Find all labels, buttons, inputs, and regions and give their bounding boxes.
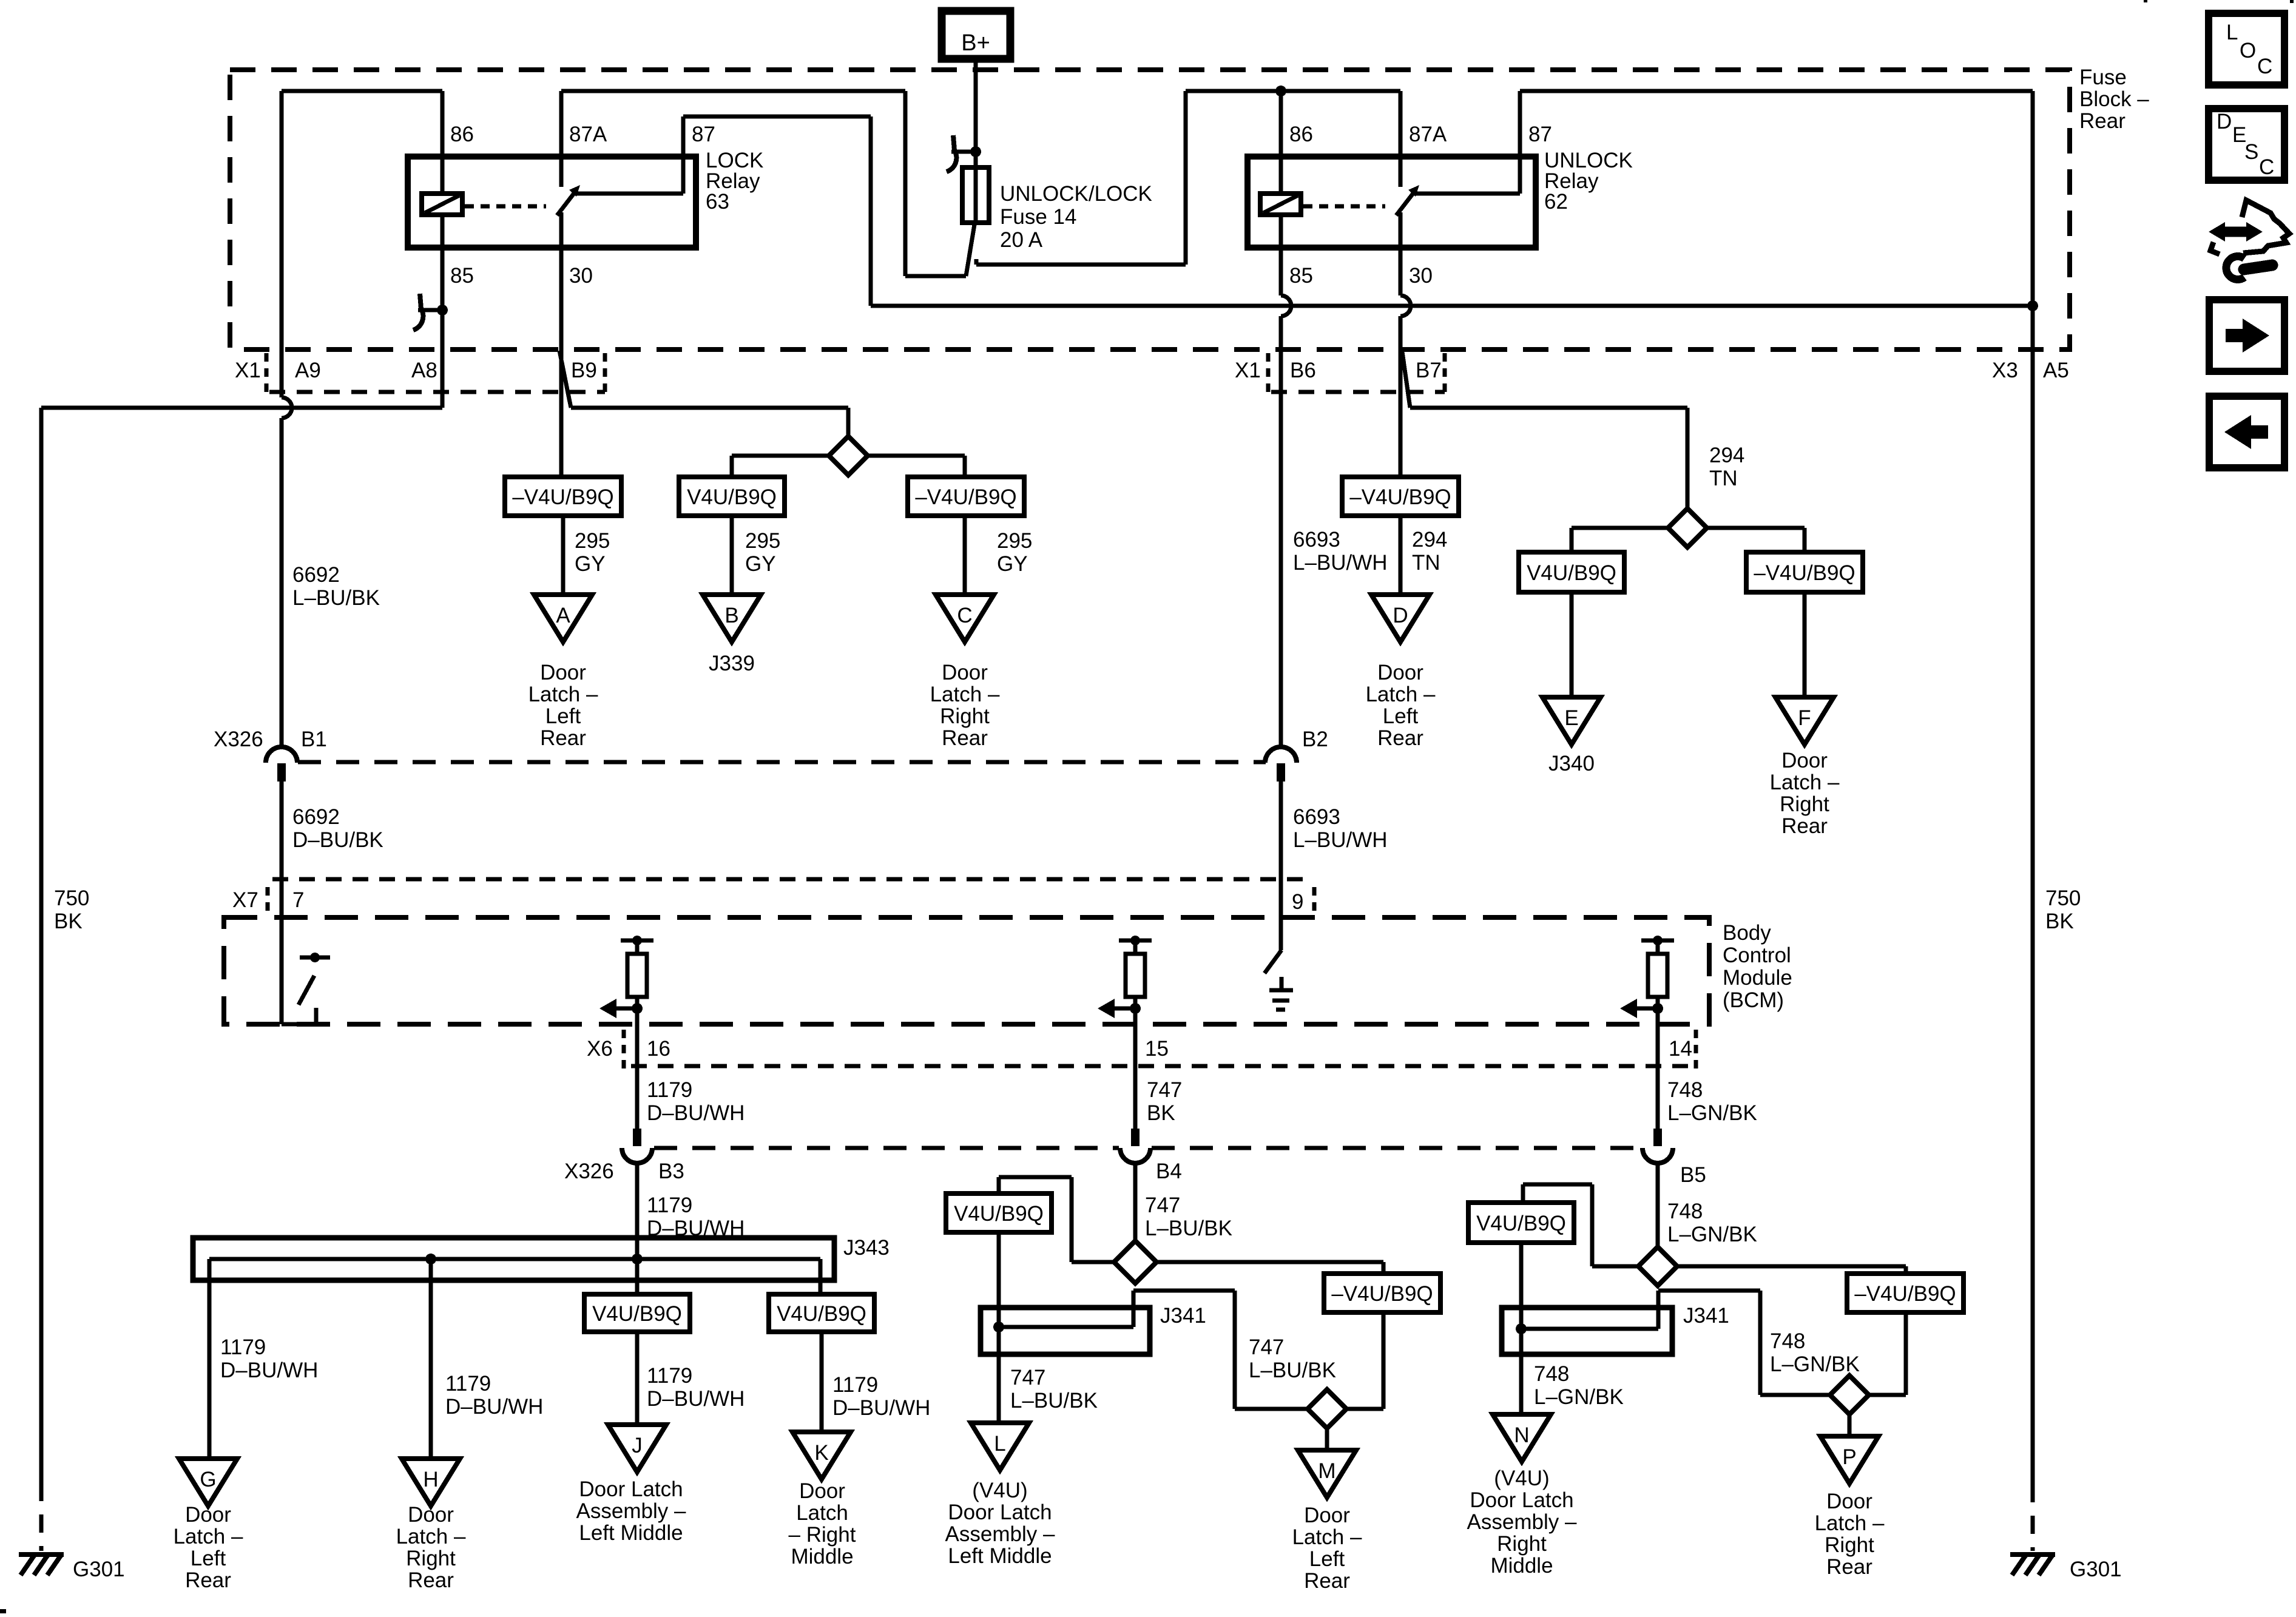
svg-text:K: K [814, 1441, 828, 1465]
label door latch left rear D [1366, 661, 1436, 750]
svg-text:6692: 6692 [292, 805, 340, 829]
svg-text:D–BU/WH: D–BU/WH [220, 1359, 318, 1382]
wire P diamond to triangle P [1848, 1414, 1852, 1436]
svg-text:B2: B2 [1302, 727, 1328, 751]
svg-text:S: S [2244, 140, 2258, 164]
wire J343 to K box [819, 1259, 823, 1294]
svg-text:–V4U/B9Q: –V4U/B9Q [1349, 485, 1451, 509]
svg-text:GY: GY [745, 552, 776, 576]
svg-text:B1: B1 [301, 727, 327, 751]
bus rail inside fuse block [871, 304, 2033, 308]
svg-text:G301: G301 [73, 1558, 125, 1581]
battery feed B+ terminal [942, 11, 1010, 59]
svg-text:D–BU/WH: D–BU/WH [832, 1396, 930, 1420]
label door latch right rear P [1815, 1490, 1885, 1579]
label 294 TN at EF feed [1709, 444, 1744, 490]
wire A9 to lock 86 [282, 89, 442, 93]
page artifact top right [2144, 0, 2294, 3]
svg-text:748: 748 [1534, 1362, 1569, 1386]
svg-text:– Right: – Right [789, 1523, 856, 1547]
svg-text:86: 86 [450, 123, 474, 146]
triangle connector G [179, 1459, 237, 1506]
wire L box through J341 to triangle L [997, 1232, 1001, 1423]
svg-text:V4U/B9Q: V4U/B9Q [954, 1202, 1044, 1226]
svg-text:Latch –: Latch – [1292, 1525, 1362, 1549]
connector X326 B2 [1265, 747, 1297, 781]
svg-text:Door: Door [540, 661, 586, 684]
svg-text:Fuse: Fuse [2079, 66, 2127, 89]
svg-text:Door Latch: Door Latch [579, 1477, 683, 1501]
svg-text:750: 750 [54, 886, 89, 910]
svg-text:L–GN/BK: L–GN/BK [1770, 1352, 1860, 1376]
svg-text:L–BU/BK: L–BU/BK [292, 586, 380, 610]
svg-text:L–BU/BK: L–BU/BK [1010, 1389, 1098, 1413]
svg-text:Latch –: Latch – [1815, 1511, 1885, 1535]
label 295 GY at A [575, 529, 610, 576]
label 750 BK right [2045, 886, 2081, 933]
svg-text:Assembly –: Assembly – [945, 1522, 1055, 1546]
svg-text:O: O [2240, 39, 2256, 62]
svg-text:85: 85 [450, 264, 474, 288]
svg-text:Left: Left [1383, 704, 1419, 728]
wire pin16 out [635, 1028, 640, 1129]
svg-text:J341: J341 [1160, 1304, 1206, 1328]
svg-text:L–GN/BK: L–GN/BK [1667, 1223, 1757, 1246]
svg-text:Assembly –: Assembly – [576, 1499, 686, 1523]
option box V4U/B9Q E [1519, 552, 1624, 592]
wire D box to triangle D [1399, 516, 1403, 595]
svg-text:747: 747 [1145, 1193, 1180, 1217]
svg-text:20 A: 20 A [1000, 228, 1043, 252]
svg-text:D–BU/WH: D–BU/WH [647, 1387, 745, 1411]
svg-text:87: 87 [1528, 123, 1552, 146]
connector X326 row2 dashed line [654, 1146, 1641, 1150]
svg-text:C: C [2259, 155, 2274, 179]
svg-text:X1: X1 [1235, 359, 1261, 382]
wire B box to triangle B [730, 516, 734, 595]
triangle connector A [534, 595, 592, 642]
BCM driver pin14 [1620, 936, 1674, 1028]
wire B3 down to J343 [635, 1163, 640, 1294]
splice diamond EF [1668, 508, 1707, 547]
lock relay switch arm [557, 185, 580, 215]
label 6692 L-BU/BK [292, 563, 380, 610]
unlock relay switch arm [1396, 185, 1419, 215]
fuse F14 UNLOCK/LOCK 20A [962, 167, 989, 223]
svg-text:A8: A8 [411, 359, 437, 382]
svg-text:1179: 1179 [647, 1193, 692, 1217]
svg-text:Rear: Rear [1377, 726, 1423, 750]
svg-text:G: G [200, 1468, 216, 1491]
wire B9 down to A box [559, 349, 564, 477]
svg-text:GY: GY [575, 552, 606, 576]
lock relay coil [422, 194, 462, 215]
triangle connector L [971, 1423, 1029, 1470]
triangle connector F [1775, 697, 1834, 744]
svg-text:X326: X326 [214, 727, 263, 751]
svg-text:L–GN/BK: L–GN/BK [1534, 1385, 1624, 1409]
svg-text:–V4U/B9Q: –V4U/B9Q [1854, 1282, 1956, 1306]
svg-text:B+: B+ [961, 30, 990, 56]
connector X1 left labels [235, 359, 597, 382]
label door latch left rear G [174, 1503, 243, 1592]
label door latch right middle K [789, 1479, 856, 1568]
label 747 L-BU/BK B4 [1145, 1193, 1232, 1240]
wire B9 branch to splice [559, 351, 848, 438]
svg-text:87A: 87A [569, 123, 607, 146]
wire diamond to M box [1156, 1262, 1383, 1274]
svg-text:Latch –: Latch – [528, 683, 598, 706]
BCM pin7 switch [282, 953, 330, 1024]
wire pin14 out [1656, 1028, 1660, 1129]
ground G301 left [19, 1555, 125, 1581]
svg-text:D–BU/WH: D–BU/WH [647, 1101, 745, 1125]
wire F box to triangle F [1803, 592, 1807, 697]
svg-text:(BCM): (BCM) [1723, 988, 1784, 1012]
svg-text:L–GN/BK: L–GN/BK [1667, 1101, 1757, 1125]
svg-text:G301: G301 [2070, 1558, 2122, 1581]
svg-text:C: C [957, 604, 972, 627]
label door latch assembly left middle J [576, 1477, 686, 1545]
wire A9-B1 6692 [280, 91, 284, 748]
option box V4U/B9Q L [946, 1193, 1052, 1232]
label 748 L-GN/BK B5 [1667, 1200, 1757, 1246]
label 295 GY at B [745, 529, 780, 576]
svg-text:V4U/B9Q: V4U/B9Q [777, 1302, 866, 1326]
triangle connector C [936, 595, 994, 642]
wire pin15 out [1133, 1028, 1138, 1129]
svg-text:Rear: Rear [540, 726, 586, 750]
svg-text:Left Middle: Left Middle [948, 1544, 1052, 1568]
body control module dashed box [224, 917, 1709, 1024]
svg-text:Fuse 14: Fuse 14 [1000, 205, 1076, 229]
svg-text:9: 9 [1292, 890, 1303, 914]
page artifact bottom left [0, 1609, 6, 1613]
svg-text:295: 295 [997, 529, 1032, 553]
svg-text:TN: TN [1412, 551, 1440, 575]
svg-text:TN: TN [1709, 467, 1738, 490]
svg-text:748: 748 [1667, 1200, 1703, 1223]
clamp symbol at B+ wire [947, 135, 981, 172]
svg-text:V4U/B9Q: V4U/B9Q [1527, 561, 1616, 585]
svg-text:UNLOCK/LOCK: UNLOCK/LOCK [1000, 182, 1152, 206]
icon adjust hand tool [2209, 200, 2289, 280]
svg-text:87: 87 [692, 123, 715, 146]
connector X7 row dotted line [272, 877, 1313, 882]
svg-text:Right: Right [406, 1547, 456, 1570]
svg-text:BK: BK [1147, 1101, 1175, 1125]
svg-text:63: 63 [706, 190, 729, 214]
svg-text:A9: A9 [295, 359, 321, 382]
label 1179 D-BU/WH J [647, 1364, 745, 1411]
label J339 [709, 652, 755, 675]
svg-text:Body: Body [1723, 921, 1771, 945]
svg-text:Door: Door [1781, 749, 1828, 772]
svg-text:747: 747 [1010, 1366, 1045, 1389]
wire splice to F box [1706, 528, 1805, 552]
lock relay 63 box [408, 157, 696, 248]
hop unlock30 over rail [1400, 295, 1411, 316]
wire fuse to lock relay 87A [561, 91, 974, 276]
triangle connector P [1820, 1436, 1879, 1484]
triangle connector M [1298, 1450, 1356, 1497]
svg-text:Rear: Rear [1826, 1555, 1872, 1579]
wire splice to C box [867, 456, 965, 477]
label body control module BCM [1723, 921, 1792, 1012]
svg-text:M: M [1318, 1459, 1335, 1483]
option box -V4U/B9Q C [908, 477, 1024, 516]
option box V4U/B9Q J [584, 1294, 690, 1332]
wire B6-B2 6693 [1279, 349, 1283, 748]
wire M diamond to triangle M [1325, 1428, 1329, 1450]
lock relay pin 85 wire [442, 215, 474, 349]
label X326 B1 [214, 727, 327, 751]
svg-text:Assembly –: Assembly – [1467, 1510, 1577, 1534]
label 747 L-BU/BK M [1249, 1335, 1336, 1382]
wire B7 to D box 294 [1399, 349, 1403, 477]
svg-text:B: B [724, 604, 738, 627]
label 1179 D-BU/WH pin16 [647, 1078, 745, 1125]
wire B2 to BCM pin9 6693 [1279, 781, 1283, 950]
svg-text:Rear: Rear [942, 726, 988, 750]
svg-text:Right: Right [940, 704, 990, 728]
splice diamond B5 [1638, 1247, 1677, 1286]
label 1179 D-BU/WH G [220, 1335, 318, 1382]
splice pack J343 outline [193, 1238, 834, 1280]
svg-text:Door: Door [408, 1503, 454, 1527]
svg-text:–V4U/B9Q: –V4U/B9Q [512, 485, 613, 509]
svg-text:Door: Door [1304, 1504, 1350, 1527]
svg-text:A5: A5 [2043, 359, 2069, 382]
svg-text:Door: Door [942, 661, 988, 684]
svg-text:L–BU/BK: L–BU/BK [1249, 1359, 1336, 1382]
svg-text:1179: 1179 [647, 1078, 692, 1102]
svg-text:–V4U/B9Q: –V4U/B9Q [1331, 1282, 1433, 1306]
ground G301 right [2010, 1555, 2122, 1581]
svg-text:X326: X326 [564, 1160, 614, 1183]
svg-text:Block –: Block – [2079, 87, 2149, 111]
svg-text:16: 16 [647, 1037, 670, 1061]
option box -V4U/B9Q M [1324, 1274, 1440, 1312]
label J341 left [1160, 1304, 1206, 1328]
svg-text:C: C [2257, 55, 2272, 78]
icon LOC box [2209, 13, 2284, 85]
label 6693 L-BU/WH lower [1293, 805, 1388, 852]
svg-text:X1: X1 [235, 359, 261, 382]
unlock relay pin 86 [1281, 91, 1313, 194]
label (V4U) door latch assembly left middle L [945, 1479, 1055, 1568]
svg-text:GY: GY [997, 552, 1028, 576]
svg-text:P: P [1842, 1445, 1856, 1469]
svg-text:Right: Right [1825, 1533, 1874, 1557]
svg-text:J: J [632, 1434, 643, 1457]
wire M box to M diamond [1346, 1312, 1383, 1409]
wire diamond to L box [999, 1177, 1114, 1262]
svg-text:Rear: Rear [1781, 814, 1828, 838]
label 1179 D-BU/WH B3 [647, 1193, 745, 1240]
splice diamond B4 [1114, 1241, 1156, 1283]
wire P box to P diamond [1869, 1312, 1906, 1395]
svg-text:Rear: Rear [1304, 1569, 1350, 1593]
option box -V4U/B9Q F [1746, 552, 1863, 592]
svg-text:Left Middle: Left Middle [579, 1521, 683, 1545]
svg-text:295: 295 [575, 529, 610, 553]
svg-text:6692: 6692 [292, 563, 340, 587]
svg-text:(V4U): (V4U) [972, 1479, 1027, 1502]
svg-text:Right: Right [1780, 792, 1829, 816]
svg-text:Rear: Rear [2079, 109, 2125, 133]
option box V4U/B9Q B [679, 477, 785, 516]
triangle connector N [1493, 1414, 1551, 1462]
svg-text:294: 294 [1412, 528, 1447, 552]
svg-text:748: 748 [1667, 1078, 1703, 1102]
J341 left internal bus [993, 1291, 1308, 1409]
svg-text:Door Latch: Door Latch [948, 1501, 1052, 1524]
unlock relay pin 85 wire [1281, 215, 1313, 349]
labels X7 7 9 [232, 888, 1303, 914]
svg-text:7: 7 [292, 888, 304, 912]
connector X1 right labels [1235, 359, 1442, 382]
wire splice to E box [1572, 528, 1669, 552]
svg-text:BK: BK [54, 910, 83, 933]
svg-text:Latch –: Latch – [1770, 771, 1840, 794]
wire N box through J341 to triangle N [1519, 1243, 1524, 1414]
label door latch left rear M [1292, 1504, 1362, 1593]
svg-text:Door: Door [1377, 661, 1423, 684]
junction dot J [632, 1254, 643, 1264]
svg-text:86: 86 [1289, 123, 1313, 146]
svg-text:87A: 87A [1409, 123, 1447, 146]
label 750 BK left [54, 886, 89, 933]
svg-text:X7: X7 [232, 888, 258, 912]
J343 internal bus [209, 1257, 820, 1261]
svg-text:B9: B9 [571, 359, 597, 382]
triangle connector D [1371, 595, 1430, 642]
svg-text:J343: J343 [843, 1236, 890, 1260]
lock relay pin 87A [561, 91, 607, 187]
svg-text:B6: B6 [1290, 359, 1316, 382]
fuse block rear dashed outline [230, 70, 2070, 349]
lock relay coil-switch dashed link [465, 204, 546, 209]
svg-text:X3: X3 [1992, 359, 2018, 382]
svg-text:(V4U): (V4U) [1494, 1467, 1549, 1490]
unlock relay 62 box [1248, 157, 1536, 248]
label 748 L-GN/BK pin14 [1667, 1078, 1757, 1125]
svg-text:62: 62 [1544, 190, 1568, 214]
svg-text:Middle: Middle [791, 1545, 853, 1568]
svg-text:L–BU/WH: L–BU/WH [1293, 828, 1388, 852]
fuse 14 label [1000, 182, 1152, 252]
svg-text:A: A [556, 604, 570, 627]
svg-text:Latch –: Latch – [174, 1525, 243, 1548]
svg-text:Door: Door [799, 1479, 845, 1503]
svg-text:295: 295 [745, 529, 780, 553]
icon DESC box [2209, 109, 2284, 180]
wire C box to triangle C [963, 516, 967, 595]
svg-text:1179: 1179 [220, 1335, 266, 1359]
svg-text:Module: Module [1723, 966, 1792, 990]
svg-text:Latch –: Latch – [396, 1525, 466, 1548]
svg-text:Right: Right [1497, 1532, 1547, 1556]
unlock relay coil-switch dashed link [1303, 204, 1385, 209]
svg-text:J340: J340 [1548, 752, 1595, 775]
connector X326 B4 [1120, 1129, 1150, 1163]
splice pack J341 right outline [1502, 1308, 1672, 1354]
option box V4U/B9Q K [769, 1294, 874, 1332]
svg-text:N: N [1514, 1423, 1529, 1447]
unlock relay coil [1260, 194, 1301, 215]
hop unlock85 over rail [1281, 295, 1291, 316]
label 1179 D-BU/WH H [445, 1372, 543, 1419]
option box -V4U/B9Q D [1342, 477, 1459, 516]
svg-text:E: E [1564, 706, 1578, 730]
label 1179 D-BU/WH K [832, 1373, 930, 1420]
unlock relay pin 30 wire [1400, 212, 1433, 349]
label 6692 D-BU/BK [292, 805, 383, 852]
label door latch right rear C [930, 661, 1000, 750]
svg-text:1179: 1179 [445, 1372, 491, 1396]
svg-text:30: 30 [569, 264, 593, 288]
svg-text:747: 747 [1249, 1335, 1284, 1359]
svg-text:BK: BK [2045, 910, 2074, 933]
wire B+ to fuse 14 [974, 59, 978, 167]
junction rail to X3-A5 [2027, 91, 2038, 311]
svg-text:L: L [2226, 21, 2238, 44]
label 747 BK pin15 [1147, 1078, 1182, 1125]
label door latch left rear A [528, 661, 598, 750]
option box -V4U/B9Q A [505, 477, 621, 516]
svg-text:–V4U/B9Q: –V4U/B9Q [1754, 561, 1855, 585]
svg-text:294: 294 [1709, 444, 1744, 467]
icon arrow back box [2209, 396, 2284, 468]
lock relay pin 30 wire [561, 212, 593, 349]
label J341 right [1683, 1304, 1729, 1328]
left ground rail 750 BK [39, 408, 44, 1551]
svg-text:6693: 6693 [1293, 805, 1340, 829]
label B2 [1302, 727, 1328, 751]
svg-text:B7: B7 [1416, 359, 1442, 382]
wire A box to triangle A [561, 516, 566, 595]
connector X6 ticks [624, 1030, 1696, 1070]
wire diamond to P box [1677, 1266, 1906, 1275]
connector X3 A5 labels [1992, 359, 2069, 382]
wire E box to triangle E [1570, 592, 1574, 697]
svg-text:Latch –: Latch – [1366, 683, 1436, 706]
label 295 GY at C [997, 529, 1032, 576]
svg-text:B5: B5 [1680, 1163, 1706, 1187]
lock relay pin 86 [442, 91, 474, 194]
svg-text:1179: 1179 [647, 1364, 692, 1388]
svg-text:J339: J339 [709, 652, 755, 675]
wire diamond to N box [1523, 1184, 1638, 1266]
labels X6 16 15 14 [587, 1037, 1692, 1061]
label 748 L-GN/BK P [1770, 1329, 1860, 1376]
triangle connector K [792, 1432, 851, 1479]
svg-text:747: 747 [1147, 1078, 1182, 1102]
svg-text:D–BU/BK: D–BU/BK [292, 828, 383, 852]
svg-text:D–BU/WH: D–BU/WH [445, 1395, 543, 1419]
wire J343 to triangle H [429, 1259, 433, 1459]
svg-text:L–BU/WH: L–BU/WH [1293, 551, 1388, 575]
label 6693 L-BU/WH upper [1293, 528, 1388, 575]
svg-text:Left: Left [545, 704, 581, 728]
svg-text:6693: 6693 [1293, 528, 1340, 552]
wire B4 to splice diamond [1133, 1163, 1138, 1241]
fuse block label [2079, 66, 2149, 133]
lock relay pin 87 wire [574, 116, 871, 306]
wire A8 to ground rail [41, 349, 442, 408]
unlock relay pin 87 wire [1413, 91, 2033, 194]
